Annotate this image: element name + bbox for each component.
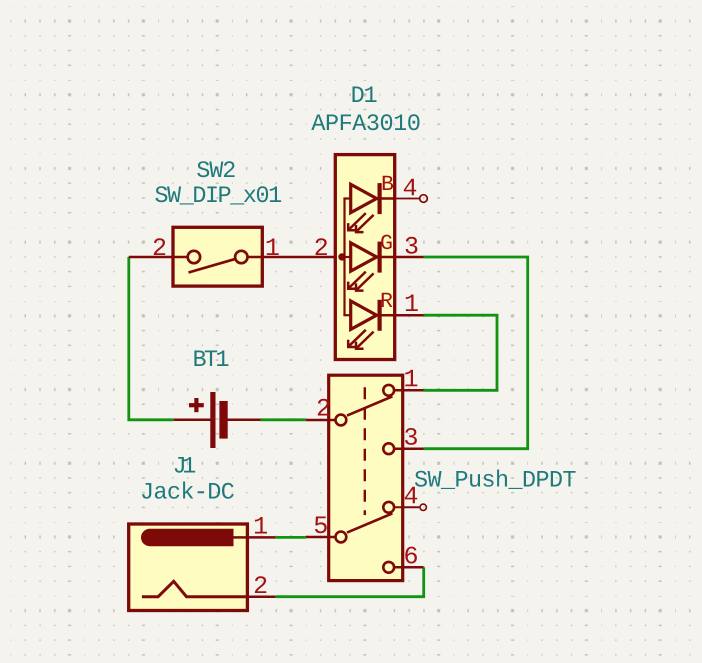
SW1 pin number 6: [405, 547, 417, 564]
lever pole A: [347, 396, 392, 415]
SW1 pin number 4: [405, 487, 417, 504]
push switch SW1 SW_Push_DPDT: [306, 375, 424, 580]
pin 6: [394, 566, 424, 569]
pin name B: [383, 176, 393, 190]
J1 pin 2: [247, 595, 275, 598]
J1 tip contact: [142, 581, 248, 596]
led R: [343, 300, 394, 349]
BT1 positive plate: [210, 392, 215, 448]
battery BT1: [174, 392, 261, 448]
pin 1: [394, 389, 424, 392]
LED elements B G R: [343, 183, 394, 349]
reference J1: [175, 457, 196, 473]
jack J1: [129, 524, 276, 611]
wire net: D1 pin3 G to SW pin3: [424, 257, 528, 449]
BT1 plus sign: [189, 403, 204, 407]
value APFA3010: [311, 114, 419, 130]
J1 pin 2 number: [255, 576, 266, 593]
wire net: J1 pin2 to SW pin6: [275, 567, 423, 596]
SW2 pin number 1: [267, 239, 279, 256]
pin 5: [306, 536, 336, 539]
D1 body: [335, 155, 394, 360]
value Jack-DC: [142, 482, 234, 499]
SW1 pin number 5: [315, 517, 327, 534]
J1 sleeve lead: [233, 536, 247, 539]
lever pole B: [347, 513, 392, 532]
SW2 pin 2: [129, 256, 188, 259]
SW1 pin number 3: [405, 428, 417, 445]
led B: [343, 183, 394, 232]
LED D1: [335, 155, 394, 360]
contact pin 3: [383, 443, 394, 454]
D1 pin number 2: [316, 238, 327, 255]
value SW_Push_DPDT: [415, 470, 576, 490]
contact pin 1: [383, 385, 394, 396]
SW1 pin 4 unconnected circle: [420, 504, 426, 510]
pin 4: [394, 506, 419, 508]
SW2 right contact: [235, 251, 247, 263]
wire net: D1 pin1 R to SW pin1: [424, 315, 498, 390]
reference BT1: [194, 351, 228, 367]
reference D1: [353, 87, 377, 103]
BT1 pin +: [174, 419, 211, 422]
pin 3: [394, 447, 424, 450]
switch SW2: [129, 227, 343, 286]
J1 body: [129, 524, 248, 611]
J1 pin 1 number: [255, 517, 267, 534]
junction at D1 pin 2: [338, 253, 345, 260]
SW2 pin number 2: [154, 238, 165, 255]
SW1 pin number 2: [318, 399, 329, 416]
SW2 left contact: [188, 251, 200, 263]
SW_Push_DPDT body: [329, 375, 403, 580]
contact pin 5: [336, 532, 347, 543]
D1 pin number 1: [406, 295, 418, 312]
led G: [343, 242, 394, 291]
J1 pin 1: [247, 536, 275, 539]
coupling dashed line: [364, 387, 366, 515]
wire net: J1 pin1 to SW pin5: [275, 536, 305, 539]
SW2 lever: [189, 259, 235, 272]
D1 pin 3: [395, 256, 424, 259]
contact pin 2: [336, 415, 347, 426]
BT1 negative plate: [219, 401, 227, 439]
D1 pin 4 unconnected: [395, 198, 420, 200]
pin name G: [381, 235, 391, 250]
contact pin 4: [383, 502, 394, 513]
reference SW2: [197, 161, 234, 177]
SW2 pin 1 / wire to D1 pin 2: [248, 256, 344, 259]
SW1 pin number 1: [405, 370, 417, 387]
J1 sleeve barrel: [141, 529, 234, 546]
pin name R: [382, 293, 393, 307]
D1 pin number 3: [406, 237, 418, 254]
value SW_DIP_x01: [155, 186, 281, 204]
BT1 pin -: [228, 419, 261, 422]
contact pin 6: [383, 562, 394, 573]
wire net: BT1 minus to SW pin2: [261, 418, 306, 421]
pin 2: [306, 419, 336, 422]
D1 pin 1: [395, 314, 424, 317]
wire net: SW2 pin2 to BT1 plus: [129, 257, 174, 420]
SW2 body: [173, 227, 262, 286]
D1 pin number 4: [404, 179, 416, 196]
D1 anode bus: [343, 199, 345, 316]
